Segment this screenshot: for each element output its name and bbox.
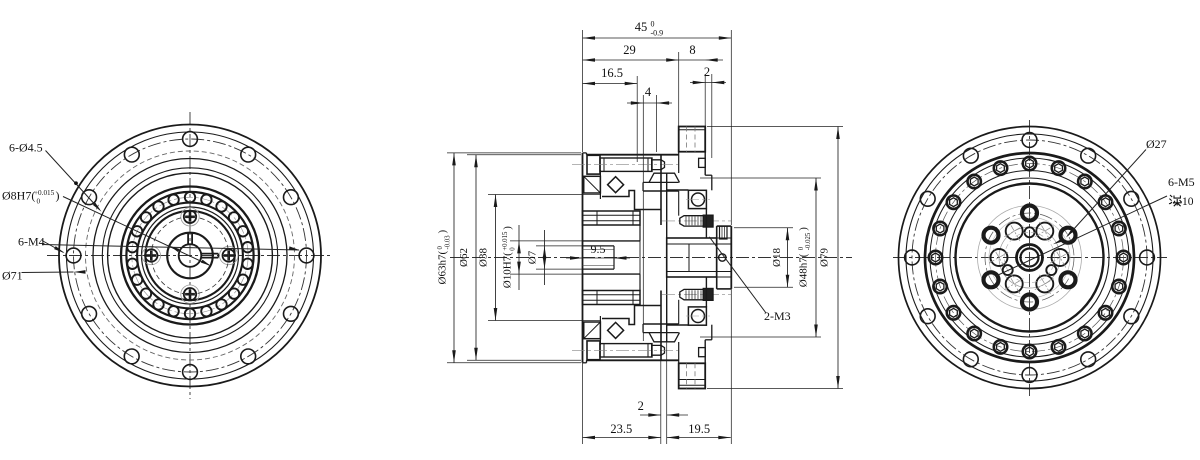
svg-text:Ø27: Ø27 (1146, 137, 1167, 151)
svg-text:): ) (56, 189, 60, 203)
svg-text:+0.015: +0.015 (502, 231, 509, 251)
svg-text:Ø71: Ø71 (2, 269, 23, 283)
svg-text:0: 0 (437, 246, 444, 250)
svg-text:): ) (502, 226, 514, 230)
svg-text:2: 2 (704, 65, 710, 79)
svg-text:4: 4 (645, 85, 652, 99)
svg-text:29: 29 (623, 43, 636, 57)
svg-text:8: 8 (689, 43, 695, 57)
svg-text:Ø48h7(: Ø48h7( (797, 253, 809, 287)
svg-text:Ø18: Ø18 (771, 248, 783, 267)
svg-text:Ø8H7(: Ø8H7( (2, 189, 35, 203)
svg-text:6-M4: 6-M4 (18, 235, 45, 249)
svg-text:Ø7: Ø7 (527, 250, 539, 264)
svg-text:-0.03: -0.03 (444, 235, 451, 250)
svg-text:0: 0 (509, 247, 516, 251)
svg-text:Ø79: Ø79 (819, 248, 831, 267)
svg-text:10: 10 (1182, 196, 1194, 208)
svg-text:Ø62: Ø62 (458, 248, 470, 267)
svg-text:2-M3: 2-M3 (764, 309, 791, 323)
svg-text:+0.015: +0.015 (34, 189, 55, 197)
svg-text:): ) (437, 230, 449, 234)
svg-text:-0.9: -0.9 (651, 29, 664, 38)
svg-text:6-M5: 6-M5 (1168, 175, 1195, 189)
svg-text:0: 0 (798, 246, 805, 250)
svg-text:9.5: 9.5 (591, 242, 606, 256)
svg-text:Ø63h7(: Ø63h7( (437, 251, 449, 285)
svg-text:): ) (798, 227, 810, 231)
svg-text:0: 0 (651, 20, 655, 29)
svg-text:2: 2 (638, 399, 644, 413)
svg-text:Ø10H7(: Ø10H7( (501, 252, 513, 288)
svg-text:Ø38: Ø38 (478, 248, 490, 267)
svg-text:6-Ø4.5: 6-Ø4.5 (9, 141, 43, 155)
svg-text:19.5: 19.5 (688, 422, 710, 436)
svg-text:-0.025: -0.025 (805, 232, 812, 250)
svg-text:45: 45 (635, 20, 648, 34)
svg-text:0: 0 (37, 197, 41, 205)
svg-text:16.5: 16.5 (601, 66, 623, 80)
svg-text:23.5: 23.5 (610, 422, 632, 436)
